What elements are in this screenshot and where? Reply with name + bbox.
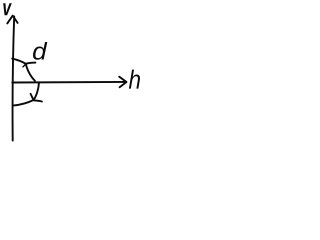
lower angle arc <box>13 83 39 105</box>
v-axis arrowhead <box>7 16 17 24</box>
upper arc arrow barb left <box>23 64 25 67</box>
h-axis arrowhead <box>119 77 126 88</box>
label v <box>3 3 12 15</box>
wire v-axis line <box>13 17 15 141</box>
upper angle arc (d) <box>12 59 35 81</box>
lower arc arrow barb right-down <box>34 100 42 101</box>
lower arc arrow barb up-left <box>31 94 33 99</box>
label h <box>129 70 140 89</box>
wire h-axis line <box>12 81 126 84</box>
upper arc arrow barb right <box>26 63 36 64</box>
label d <box>33 42 47 60</box>
